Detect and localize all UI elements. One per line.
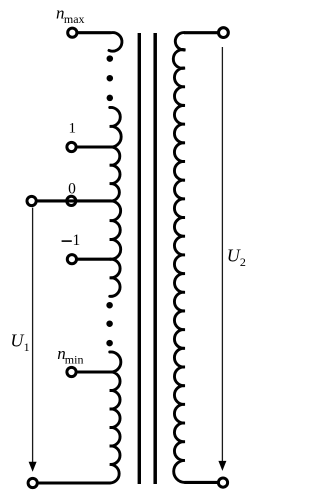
wire n_max to primary winding bbox=[77, 31, 110, 34]
U1 measurement line bbox=[32, 208, 34, 463]
secondary winding bbox=[173, 33, 185, 483]
terminal tap -1 bbox=[67, 255, 76, 264]
ellipsis dots upper (omitted turns) bbox=[107, 55, 114, 101]
wire secondary bottom bbox=[184, 481, 218, 484]
terminal secondary bottom bbox=[218, 478, 227, 487]
svg-text:1: 1 bbox=[24, 340, 30, 354]
transformer core bbox=[139, 33, 155, 484]
wire secondary top bbox=[184, 31, 218, 34]
wire tap 1 bbox=[76, 145, 111, 148]
label U1 bbox=[10, 330, 29, 354]
wire n_min bbox=[76, 370, 111, 373]
terminal n_min bbox=[67, 367, 76, 376]
wire tap 0 bbox=[36, 199, 111, 202]
terminal secondary top bbox=[219, 28, 229, 38]
U1 arrowhead bbox=[29, 462, 37, 472]
U2 measurement line bbox=[221, 47, 223, 461]
terminal n_max bbox=[68, 28, 77, 37]
terminal tap 0 bbox=[67, 196, 76, 205]
terminal primary bottom bbox=[28, 478, 37, 487]
label U2 bbox=[227, 245, 246, 269]
svg-text:min: min bbox=[65, 353, 84, 367]
ellipsis dots lower (omitted turns) bbox=[106, 302, 113, 346]
primary winding lower section with bottom bend bbox=[110, 352, 121, 483]
label n_max bbox=[56, 4, 85, 27]
wire primary bottom bbox=[37, 481, 110, 484]
svg-text:U: U bbox=[227, 245, 241, 265]
terminal U1 reference (left of tap 0) bbox=[27, 196, 36, 205]
svg-text:1: 1 bbox=[68, 121, 76, 137]
U2 arrowhead bbox=[218, 461, 226, 471]
wire tap -1 bbox=[77, 258, 112, 261]
svg-text:max: max bbox=[64, 12, 85, 26]
label n_min bbox=[57, 344, 83, 367]
terminal tap 1 bbox=[67, 142, 76, 151]
label tap -1 bbox=[62, 232, 81, 249]
svg-text:U: U bbox=[10, 330, 24, 350]
svg-text:1: 1 bbox=[73, 232, 81, 249]
primary winding upper section (taps 1, 0, -1) bbox=[110, 107, 121, 296]
primary winding top turn (hook) bbox=[109, 33, 122, 52]
svg-text:2: 2 bbox=[240, 255, 246, 269]
